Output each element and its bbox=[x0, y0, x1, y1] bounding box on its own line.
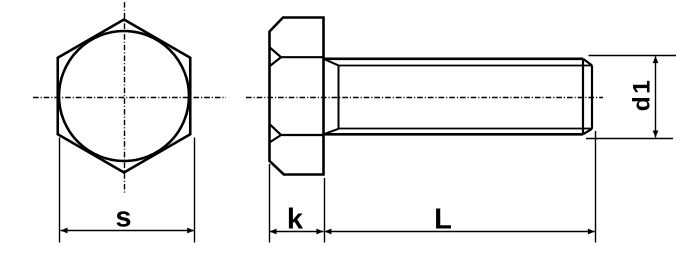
end chamfer diagonal bottom bbox=[583, 129, 592, 135]
arrow s right bbox=[187, 228, 194, 234]
arrow s left bbox=[61, 228, 68, 234]
dimension line k bbox=[270, 231, 324, 233]
end chamfer start vertical bbox=[582, 59, 584, 135]
arrow L left bbox=[324, 229, 331, 235]
svg-text:d1: d1 bbox=[629, 78, 656, 112]
arrow d1 top bbox=[653, 56, 659, 63]
arrow d1 bottom bbox=[653, 131, 659, 138]
shank outer top line (thread crest) bbox=[324, 57, 584, 60]
extension line s left bbox=[59, 138, 61, 243]
svg-text:L: L bbox=[434, 204, 452, 236]
thread runout diagonal bottom bbox=[324, 129, 339, 135]
extension line k left bbox=[269, 164, 271, 243]
dimension line L bbox=[326, 231, 595, 233]
face edge line lower bbox=[282, 134, 324, 136]
arrow k right bbox=[316, 229, 323, 235]
head outline (side view) bbox=[270, 18, 324, 175]
thread runout diagonal top bbox=[324, 59, 339, 66]
dimension line d1 bbox=[655, 57, 657, 138]
centerline horizontal (side view axis) bbox=[246, 97, 603, 99]
end face vertical bbox=[591, 65, 593, 128]
chamfer arc mark lower bbox=[270, 124, 282, 143]
face edge line upper bbox=[282, 56, 324, 58]
thread runout vertical bbox=[338, 65, 340, 128]
inscribed circle (head chamfer circle) bbox=[59, 31, 189, 161]
centerline horizontal (hex head top view) bbox=[33, 97, 226, 99]
end chamfer diagonal top bbox=[583, 59, 592, 66]
extension line k right / L left (shared) bbox=[324, 178, 326, 243]
extension line d1 bottom bbox=[586, 138, 673, 140]
svg-text:k: k bbox=[287, 204, 304, 236]
arrow k left bbox=[270, 229, 277, 235]
shank outer bottom line (thread crest) bbox=[324, 133, 584, 136]
extension line d1 top bbox=[589, 55, 677, 57]
thread root line top bbox=[339, 65, 593, 67]
hexagon (head top view, across corners vertical) bbox=[58, 20, 191, 173]
arrow L right bbox=[588, 229, 595, 235]
chamfer arc mark upper bbox=[270, 47, 282, 66]
dimension line s bbox=[61, 230, 194, 232]
svg-text:s: s bbox=[115, 202, 131, 234]
centerline vertical (hex head top view) bbox=[124, 2, 126, 193]
extension line s right bbox=[194, 138, 196, 243]
extension line L right bbox=[595, 131, 597, 243]
thread root line bottom bbox=[339, 128, 593, 130]
